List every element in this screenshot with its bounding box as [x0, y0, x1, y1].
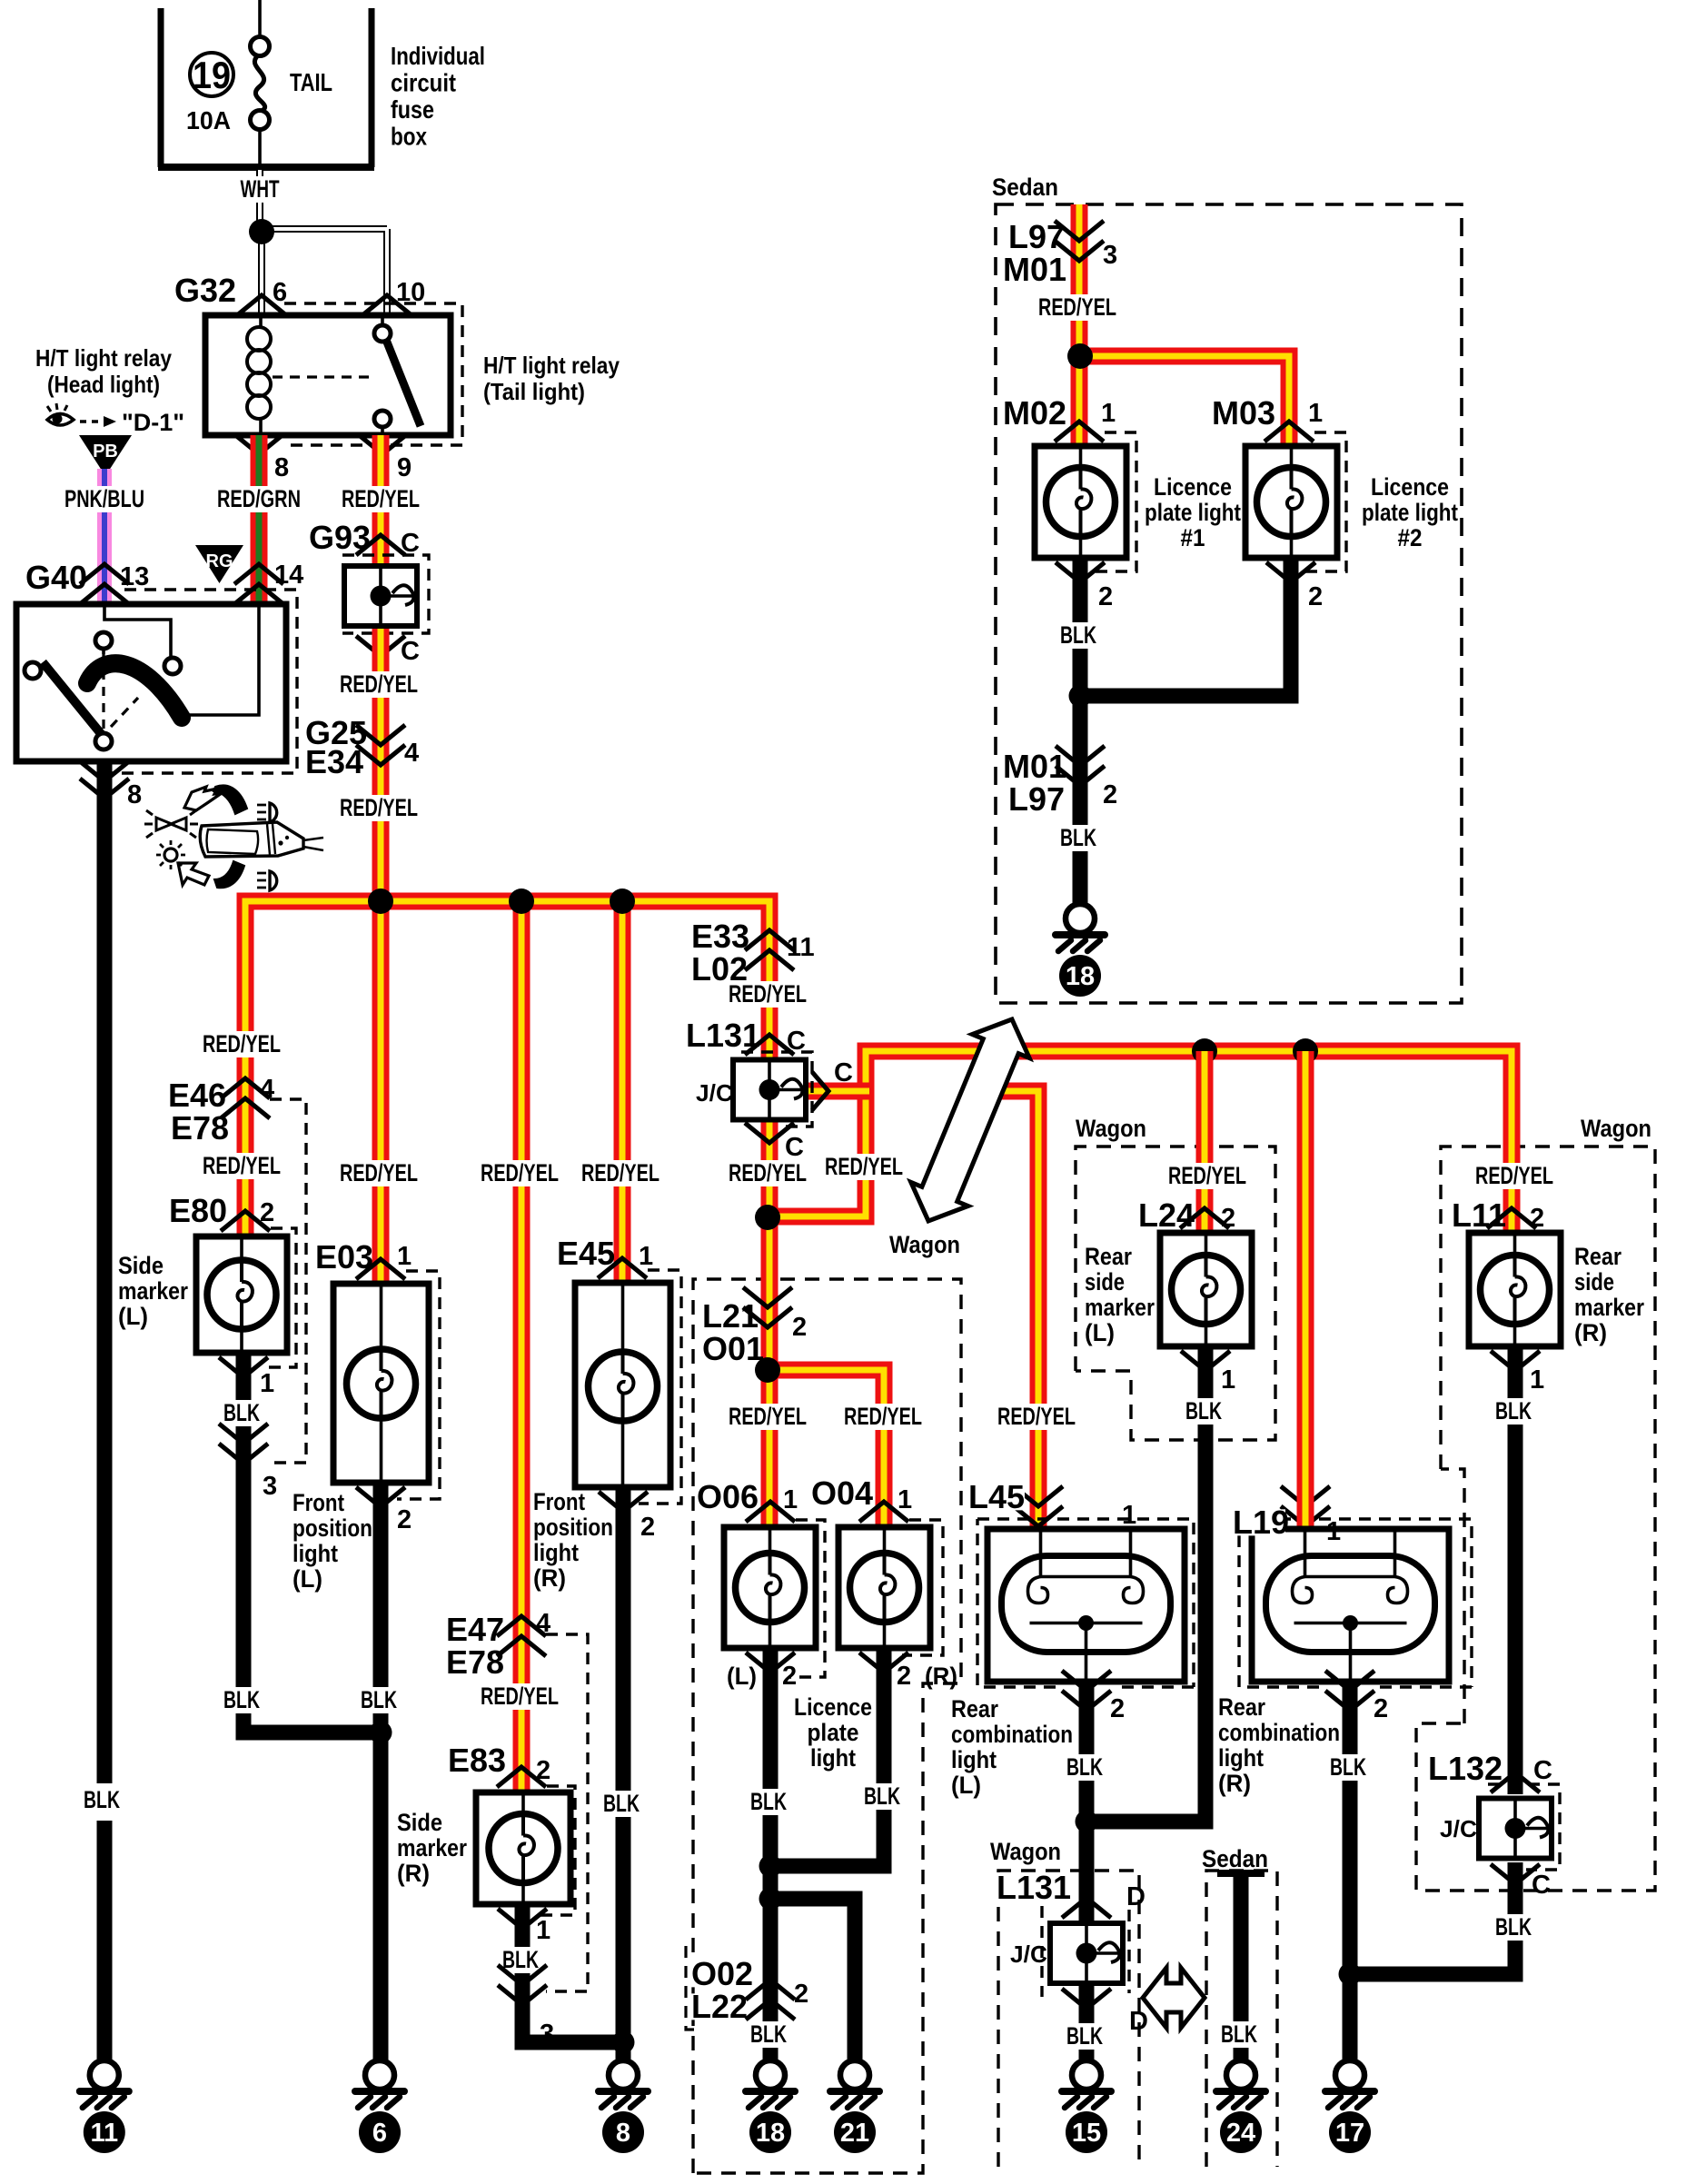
label RED/YEL (above L24) — [1162, 1163, 1253, 1189]
svg-text:2: 2 — [1110, 1694, 1125, 1723]
svg-text:1: 1 — [1326, 1517, 1341, 1546]
wire RED/YEL bus to side marker E83 — [513, 901, 531, 1792]
Wagon variant big arrow — [911, 1019, 1029, 1221]
svg-text:RED/YEL: RED/YEL — [581, 1159, 660, 1186]
svg-text:RED/YEL: RED/YEL — [203, 1152, 281, 1179]
svg-text:1: 1 — [639, 1242, 653, 1271]
L132 pin C bottom — [1491, 1864, 1540, 1884]
svg-text:J/C: J/C — [696, 1079, 733, 1107]
lamp E03 front position light (L) — [333, 1284, 429, 1483]
connector E47/E78 pin 4 — [497, 1616, 546, 1656]
svg-text:BLK: BLK — [1060, 621, 1096, 649]
label BLK (E80) — [217, 1400, 266, 1426]
svg-text:2: 2 — [794, 1980, 808, 2009]
label RED/YEL (riser to rear trunk) — [818, 1154, 909, 1180]
svg-text:marker: marker — [1574, 1294, 1644, 1321]
junction node bus/E83 branch — [509, 888, 534, 914]
page connector PB (triangle) — [79, 435, 132, 476]
svg-text:BLK: BLK — [223, 1686, 260, 1713]
svg-text:RED/YEL: RED/YEL — [729, 1159, 807, 1186]
svg-text:(L): (L) — [727, 1663, 757, 1690]
svg-text:M01: M01 — [1003, 251, 1066, 288]
wire RED/GRN from relay pin 8 to switch G40 pin 14 — [251, 435, 268, 604]
svg-text:RED/YEL: RED/YEL — [844, 1403, 922, 1430]
wire BLK sedan rear light ground to ground 24 — [1234, 1873, 1249, 2060]
junction node O06/O04 ground wires — [759, 1855, 782, 1878]
wire BLK from M03 to junction — [1080, 558, 1291, 696]
Wagon variant dashed outline around L24 — [1076, 1147, 1275, 1440]
svg-text:L131: L131 — [686, 1017, 760, 1054]
svg-text:Licence: Licence — [1154, 473, 1232, 501]
wire RED/YEL J/C L131 right port — [807, 1083, 869, 1100]
wire WHT from fuse box to relay (double line) — [256, 170, 263, 232]
label RED/YEL (above L45) — [991, 1404, 1082, 1430]
svg-text:WHT: WHT — [241, 175, 280, 203]
lamp L24 rear side marker (L) — [1160, 1233, 1252, 1346]
label RED/YEL (above E45) — [575, 1160, 666, 1186]
svg-text:RED/YEL: RED/YEL — [481, 1683, 559, 1710]
lamp E80 side marker (L) — [196, 1236, 287, 1353]
svg-text:C: C — [787, 1027, 806, 1056]
connector L21/O01 pin 2 — [743, 1287, 792, 1327]
label RED/YEL (pin 9) — [335, 486, 426, 512]
svg-text:1: 1 — [783, 1485, 798, 1514]
lamp M03 licence plate light #2 — [1245, 446, 1337, 558]
svg-text:24: 24 — [1226, 2119, 1255, 2148]
svg-text:10: 10 — [396, 278, 425, 307]
label RED/YEL (below G93) — [333, 671, 424, 698]
pin 2 of O06 — [746, 1653, 795, 1673]
connector E46/E78 pin 4 — [221, 1078, 270, 1118]
fuse F19 TAIL 10A symbol — [258, 0, 262, 37]
page connector RG (triangle) — [195, 545, 243, 583]
svg-text:9: 9 — [397, 453, 412, 482]
label RED/YEL (above O06) — [722, 1404, 813, 1430]
label BLK (sedan ground wire) — [1054, 825, 1103, 851]
ground G18 (sedan) — [1056, 904, 1105, 997]
label BLK (O06) — [744, 1789, 793, 1815]
svg-text:2: 2 — [640, 1513, 655, 1542]
svg-text:(L): (L) — [293, 1565, 322, 1593]
pin 2 of M03 — [1266, 562, 1315, 582]
G40 pin 14 — [234, 584, 283, 604]
svg-text:14: 14 — [274, 561, 303, 590]
svg-text:BLK: BLK — [1185, 1397, 1222, 1425]
svg-text:TAIL: TAIL — [290, 68, 332, 96]
label BLK (O04) — [858, 1783, 907, 1810]
label BLK (E03) — [354, 1687, 403, 1713]
L131 (D) pin D bottom — [1062, 1989, 1111, 2009]
ground G21 — [830, 2060, 879, 2153]
relay G32 dashed connector box — [284, 303, 462, 445]
svg-text:2: 2 — [536, 1756, 550, 1785]
pin 2 of L19 — [1325, 1671, 1374, 1711]
svg-text:BLK: BLK — [603, 1790, 640, 1817]
svg-text:L21: L21 — [702, 1297, 759, 1335]
G40 top contact — [95, 632, 112, 649]
svg-text:L97: L97 — [1008, 218, 1065, 255]
pin 2 of M02 — [1056, 562, 1105, 582]
L131 (D) reference label — [993, 1874, 1069, 1901]
relay G32 contact — [381, 315, 384, 325]
svg-text:4: 4 — [404, 739, 419, 768]
junction node L21 branch to O04 — [755, 1357, 780, 1383]
svg-text:Wagon: Wagon — [889, 1231, 960, 1258]
connector M03 pin 1 — [1265, 422, 1314, 442]
svg-text:light: light — [293, 1540, 338, 1567]
pin 1 of E80 — [219, 1357, 268, 1377]
svg-text:marker: marker — [1085, 1294, 1155, 1321]
svg-text:RED/YEL: RED/YEL — [729, 980, 807, 1008]
junction connector G93 body — [344, 566, 417, 626]
svg-text:RED/YEL: RED/YEL — [997, 1403, 1076, 1430]
svg-text:light: light — [810, 1744, 856, 1772]
svg-text:E78: E78 — [446, 1643, 504, 1681]
wire BLK branch to ground 21 — [770, 1899, 855, 2060]
svg-text:L24: L24 — [1138, 1196, 1195, 1234]
svg-text:G32: G32 — [174, 272, 236, 309]
svg-text:D: D — [1129, 2007, 1148, 2036]
svg-text:18: 18 — [756, 2119, 785, 2148]
svg-text:H/T light relay: H/T light relay — [483, 352, 620, 379]
label RED/YEL (above O04) — [838, 1404, 928, 1430]
svg-text:RED/GRN: RED/GRN — [217, 485, 301, 512]
svg-text:D: D — [1126, 1882, 1146, 1911]
wire BLK from E83 to junction with E45 ground wire — [522, 1904, 623, 2042]
G40 bottom contact — [95, 733, 112, 750]
svg-text:O04: O04 — [811, 1474, 873, 1512]
connector L45 pin 1 — [1014, 1486, 1063, 1526]
svg-text:C: C — [785, 1133, 804, 1162]
svg-text:G40: G40 — [25, 559, 87, 596]
svg-text:1: 1 — [898, 1485, 912, 1514]
svg-text:"D-1": "D-1" — [122, 409, 184, 436]
svg-text:6: 6 — [372, 2119, 387, 2148]
svg-text:2: 2 — [1308, 582, 1323, 611]
wire PNK/BLU from PB to switch G40 pin 13 — [97, 469, 112, 604]
pin 2 of E03 — [356, 1487, 405, 1507]
junction node sedan M02/M03 — [1067, 343, 1093, 369]
label RED/YEL (above L131) — [722, 981, 813, 1008]
svg-text:C: C — [401, 637, 420, 666]
Sedan variant dashed box (licence plate lights) — [996, 204, 1462, 1003]
svg-text:side: side — [1574, 1268, 1614, 1296]
svg-text:(R): (R) — [925, 1663, 957, 1690]
connector G25/E34 pin 4 — [356, 725, 405, 765]
svg-text:1: 1 — [1530, 1365, 1544, 1395]
svg-text:BLK: BLK — [1495, 1913, 1532, 1941]
svg-text:Front: Front — [293, 1489, 344, 1516]
connector O06 pin 1 — [746, 1502, 795, 1522]
svg-text:(L): (L) — [1085, 1319, 1115, 1346]
label RED/YEL (above E80) — [196, 1153, 287, 1179]
svg-text:RED/YEL: RED/YEL — [481, 1159, 559, 1186]
svg-text:C: C — [834, 1058, 853, 1087]
label BLK (G40 ground wire) — [77, 1787, 126, 1813]
junction node L45/L24 ground wires — [1076, 1811, 1098, 1833]
svg-text:(L): (L) — [951, 1772, 981, 1799]
relay G32 pin 8 — [234, 434, 283, 454]
svg-text:O06: O06 — [697, 1478, 759, 1515]
svg-text:17: 17 — [1335, 2119, 1364, 2148]
relay G32 pin 6 — [237, 295, 286, 315]
label RED/YEL (above E03) — [333, 1160, 424, 1186]
svg-text:Wagon: Wagon — [990, 1838, 1061, 1865]
G40 rotary contact arc — [87, 663, 182, 718]
lamp L45 rear combination light (L) — [987, 1529, 1185, 1682]
wire BLK from L45 through J/C L131 to ground 15 — [1079, 1682, 1095, 2060]
svg-text:L97: L97 — [1008, 780, 1065, 818]
label RED/YEL (above E46/E78) — [196, 1031, 287, 1057]
svg-text:C: C — [1533, 1756, 1552, 1785]
junction connector L131 (D) dashed outline — [1042, 1906, 1129, 1997]
svg-text:E47: E47 — [446, 1611, 504, 1648]
svg-text:1: 1 — [1221, 1365, 1235, 1395]
svg-text:O02: O02 — [691, 1955, 753, 1992]
wire RED/YEL from relay pin 9 to J/C G93 — [372, 435, 390, 568]
label RED/YEL (sedan) — [1032, 294, 1123, 321]
cap of sedan ground wire — [1217, 1870, 1265, 1877]
label RED/GRN — [211, 486, 307, 512]
fuse number 19 in circle — [190, 53, 233, 96]
svg-text:RED/YEL: RED/YEL — [342, 485, 420, 512]
svg-text:Rear: Rear — [1218, 1693, 1265, 1721]
svg-text:2: 2 — [1098, 582, 1113, 611]
svg-text:E83: E83 — [448, 1742, 506, 1779]
svg-text:11: 11 — [90, 2119, 118, 2148]
svg-text:6: 6 — [273, 278, 287, 307]
connector O06 dashed outline — [788, 1520, 825, 1677]
label RED/YEL (above L11) — [1469, 1163, 1560, 1189]
svg-text:8: 8 — [616, 2119, 630, 2148]
pin 2 of E45 — [599, 1492, 648, 1512]
wire RED/YEL trunk to rear right side — [768, 1051, 1512, 1233]
Individual circuit fuse box outline — [161, 8, 372, 167]
connector E45 pin 1 — [598, 1258, 647, 1278]
ground G18 — [746, 2060, 795, 2153]
svg-text:3: 3 — [1103, 241, 1117, 270]
connector E46/E78 pin 3 — [219, 1424, 268, 1464]
svg-text:1: 1 — [1308, 399, 1323, 428]
svg-text:Wagon: Wagon — [1581, 1115, 1651, 1142]
svg-text:light: light — [951, 1746, 997, 1773]
lighting switch G40 dashed connector box — [93, 590, 297, 773]
label BLK (E80 lower) — [217, 1687, 266, 1713]
svg-text:11: 11 — [787, 933, 815, 962]
pin 1 of L11 — [1491, 1351, 1540, 1371]
label RED/YEL (below G25/E34) — [333, 795, 424, 821]
svg-text:1: 1 — [1122, 1501, 1136, 1530]
svg-text:BLK: BLK — [1330, 1753, 1366, 1781]
connector E33/L02 pin 11 — [745, 930, 794, 970]
svg-text:plate light: plate light — [1145, 499, 1241, 526]
pin 1 of L24 — [1181, 1351, 1230, 1371]
svg-text:#2: #2 — [1398, 524, 1423, 551]
svg-text:box: box — [391, 123, 427, 151]
wire BLK from O04 to junction with O06 ground wire — [770, 1648, 884, 1866]
svg-text:2: 2 — [897, 1662, 911, 1691]
svg-text:M02: M02 — [1003, 394, 1066, 432]
svg-text:BLK: BLK — [1221, 2020, 1257, 2048]
wire RED/YEL trunk to rear side marker L24 — [1196, 1051, 1214, 1233]
svg-text:RED/YEL: RED/YEL — [729, 1403, 807, 1430]
svg-text:2: 2 — [1374, 1694, 1388, 1723]
junction connector L131 (D) body — [1050, 1923, 1123, 1983]
label RED/YEL (above E83) — [474, 1683, 565, 1710]
label BLK (above ground 15) — [1060, 2023, 1109, 2050]
svg-text:E45: E45 — [557, 1235, 615, 1272]
svg-text:RED/YEL: RED/YEL — [340, 1159, 418, 1186]
junction node E83/E45 ground wires — [612, 2031, 635, 2054]
connector L24 pin 2 — [1180, 1208, 1229, 1228]
svg-text:1: 1 — [536, 1916, 550, 1945]
svg-text:combination: combination — [1218, 1719, 1340, 1746]
wire RED/YEL branch to licence plate light M03 — [1080, 356, 1289, 446]
svg-text:3: 3 — [540, 2020, 554, 2049]
svg-text:18: 18 — [1066, 962, 1095, 991]
label RED/YEL (below L131) — [722, 1160, 813, 1186]
connector E80 pin 2 — [221, 1211, 270, 1231]
svg-text:(Head light): (Head light) — [47, 371, 160, 398]
wire RED/YEL sedan feed to licence plate light M02 — [1071, 204, 1088, 446]
svg-text:Side: Side — [397, 1809, 442, 1836]
svg-text:E46: E46 — [168, 1077, 226, 1114]
svg-text:(R): (R) — [397, 1860, 430, 1887]
svg-text:Sedan: Sedan — [992, 174, 1058, 201]
ground G24 — [1216, 2060, 1265, 2153]
connector E83 pin 2 — [497, 1767, 546, 1787]
connector E47/E78 dashed outline — [546, 1634, 588, 1991]
Wagon variant dashed outline around L11 and L132 — [1416, 1147, 1655, 1891]
lamp L19 rear combination light (R) — [1252, 1529, 1449, 1682]
connector E45 dashed outline — [639, 1270, 681, 1504]
label BLK (above ground 24) — [1215, 2021, 1264, 2048]
connector O02/L22 pin 2 — [746, 1980, 795, 2020]
wire RED/YEL bus to front position light E03 — [372, 901, 390, 1284]
junction connector L132 dashed outline — [1488, 1784, 1560, 1870]
svg-text:E33: E33 — [691, 918, 749, 955]
L131 pin C top — [745, 1035, 794, 1055]
eye icon (headlight-on indicator) — [47, 414, 74, 426]
L132 pin C top — [1491, 1772, 1540, 1792]
label RED/YEL (E83 branch upper) — [474, 1160, 565, 1186]
label BLK (above ground 18) — [744, 2021, 793, 2048]
wire BLK from L19 to ground 17 — [1343, 1682, 1358, 2060]
svg-text:BLK: BLK — [84, 1786, 120, 1813]
dashed arrow to D-1 — [80, 420, 105, 422]
svg-text:plate: plate — [808, 1719, 859, 1746]
ground G11 — [80, 2060, 129, 2153]
connector L11 pin 2 — [1487, 1208, 1536, 1228]
svg-text:(R): (R) — [1574, 1319, 1607, 1346]
wire BLK from M02 to sedan ground 18 — [1073, 558, 1088, 904]
svg-text:Individual: Individual — [391, 42, 485, 70]
svg-text:Rear: Rear — [1085, 1243, 1132, 1270]
svg-text:E03: E03 — [315, 1238, 373, 1276]
svg-text:(R): (R) — [1218, 1770, 1251, 1797]
svg-text:L11: L11 — [1452, 1196, 1506, 1234]
svg-text:Rear: Rear — [1574, 1243, 1622, 1270]
svg-text:side: side — [1085, 1268, 1125, 1296]
svg-text:BLK: BLK — [1066, 1753, 1103, 1781]
junction connector G93 dashed box — [342, 555, 429, 633]
svg-text:(Tail light): (Tail light) — [483, 378, 585, 405]
relay G32 body — [205, 315, 451, 435]
G40 pin 13 — [80, 584, 129, 604]
svg-text:light: light — [533, 1539, 579, 1566]
junction node rear trunk / L24 — [1192, 1038, 1217, 1064]
junction node M02/M03 ground wires — [1069, 685, 1092, 708]
wire BLK from switch G40 pin 8 to ground 11 (upper) — [97, 761, 113, 1783]
svg-text:2: 2 — [782, 1662, 797, 1691]
connector M01/L97 pin 2 — [1056, 746, 1105, 786]
svg-text:fuse: fuse — [391, 95, 434, 124]
svg-text:Sedan: Sedan — [1202, 1845, 1268, 1872]
svg-text:O01: O01 — [702, 1330, 764, 1367]
connector O02/L22 dashed outline — [686, 1946, 696, 2030]
G40 pin 8 — [80, 761, 129, 781]
svg-text:19: 19 — [193, 54, 231, 96]
wire BLK from L24 to junction with L45 ground wire — [1086, 1346, 1205, 1822]
connector O04 pin 1 — [859, 1502, 908, 1522]
svg-text:13: 13 — [120, 562, 149, 591]
wire RED/YEL G93 to G25/E34 to bus — [372, 629, 390, 901]
svg-text:BLK: BLK — [1495, 1397, 1532, 1425]
wire RED/YEL trunk to rear combination light L19 — [1297, 1051, 1314, 1529]
svg-text:RED/YEL: RED/YEL — [825, 1153, 903, 1180]
Sedan variant dashed box (ground 24) — [1206, 1871, 1277, 2167]
pin 1 of E83 — [498, 1909, 547, 1929]
svg-text:3: 3 — [263, 1472, 277, 1501]
junction node O06/ground-21 branch — [759, 1888, 782, 1911]
svg-text:plate light: plate light — [1362, 499, 1458, 526]
svg-text:2: 2 — [1221, 1204, 1235, 1233]
wire BLK from E45 to ground 8 — [616, 1487, 631, 2060]
junction node L19/L132 ground wires — [1339, 1963, 1362, 1986]
svg-text:RED/YEL: RED/YEL — [1475, 1162, 1553, 1189]
G40 internal wiring — [104, 604, 171, 658]
svg-text:C: C — [401, 529, 420, 558]
svg-text:2: 2 — [260, 1198, 274, 1227]
svg-text:L19: L19 — [1233, 1504, 1289, 1541]
label BLK (L24) — [1179, 1398, 1228, 1425]
svg-text:2: 2 — [792, 1313, 807, 1342]
svg-text:BLK: BLK — [1060, 824, 1096, 851]
svg-text:8: 8 — [274, 453, 289, 482]
svg-text:1: 1 — [1101, 399, 1116, 428]
label BLK (L11) — [1489, 1398, 1538, 1425]
junction node rear trunk / L19 — [1293, 1038, 1318, 1064]
svg-text:Licence: Licence — [794, 1693, 872, 1721]
svg-text:PNK/BLU: PNK/BLU — [64, 485, 144, 512]
svg-text:L131: L131 — [997, 1869, 1071, 1906]
connector E46/E78 dashed outline — [270, 1099, 306, 1463]
svg-text:RED/YEL: RED/YEL — [203, 1030, 281, 1057]
lamp M02 licence plate light #1 — [1035, 446, 1126, 558]
junction node E80/E03 ground wires — [370, 1722, 392, 1744]
svg-text:Front: Front — [533, 1488, 585, 1515]
lamp O06 licence plate light (L) — [724, 1527, 816, 1648]
G40 left contact and lever — [25, 662, 41, 679]
connector E47/E78 pin 3 — [498, 1965, 547, 2005]
label BLK (below L132) — [1489, 1914, 1538, 1941]
svg-text:8: 8 — [127, 780, 142, 809]
connector E80 dashed outline — [261, 1228, 296, 1367]
svg-text:RED/YEL: RED/YEL — [340, 670, 418, 698]
junction connector L131 dashed box — [741, 1052, 812, 1127]
connector M02 dashed outline — [1091, 432, 1136, 571]
svg-text:2: 2 — [1103, 780, 1117, 809]
